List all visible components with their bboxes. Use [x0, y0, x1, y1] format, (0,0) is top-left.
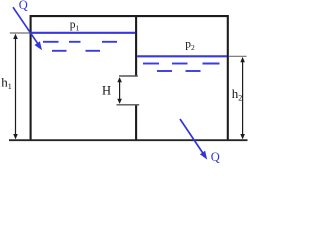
inflow arrow Q [13, 7, 42, 50]
h1 dimension arrow [13, 34, 18, 140]
orifice bottom tick [117, 104, 140, 106]
outflow arrow Q [180, 119, 207, 160]
water surface tank 2 [137, 55, 227, 57]
h1 reference line [10, 32, 30, 34]
bottom baseline [9, 139, 248, 141]
H dimension arrow [117, 77, 122, 104]
svg-text:H: H [102, 83, 111, 97]
divider wall lower segment [135, 104, 137, 140]
svg-text:Q: Q [19, 0, 28, 12]
tank outline [31, 16, 228, 140]
water dashes tank 2 row 1 [143, 63, 220, 65]
water dashes tank 2 row 2 [157, 70, 201, 72]
svg-text:Q: Q [211, 150, 220, 164]
divider wall upper segment [135, 16, 137, 77]
h2 reference line [229, 55, 247, 57]
h2 dimension arrow [240, 57, 245, 139]
water dashes tank 1 row 2 [52, 50, 100, 52]
orifice top tick [119, 75, 138, 77]
water surface tank 1 [32, 32, 135, 34]
water dashes tank 1 row 1 [43, 41, 117, 43]
